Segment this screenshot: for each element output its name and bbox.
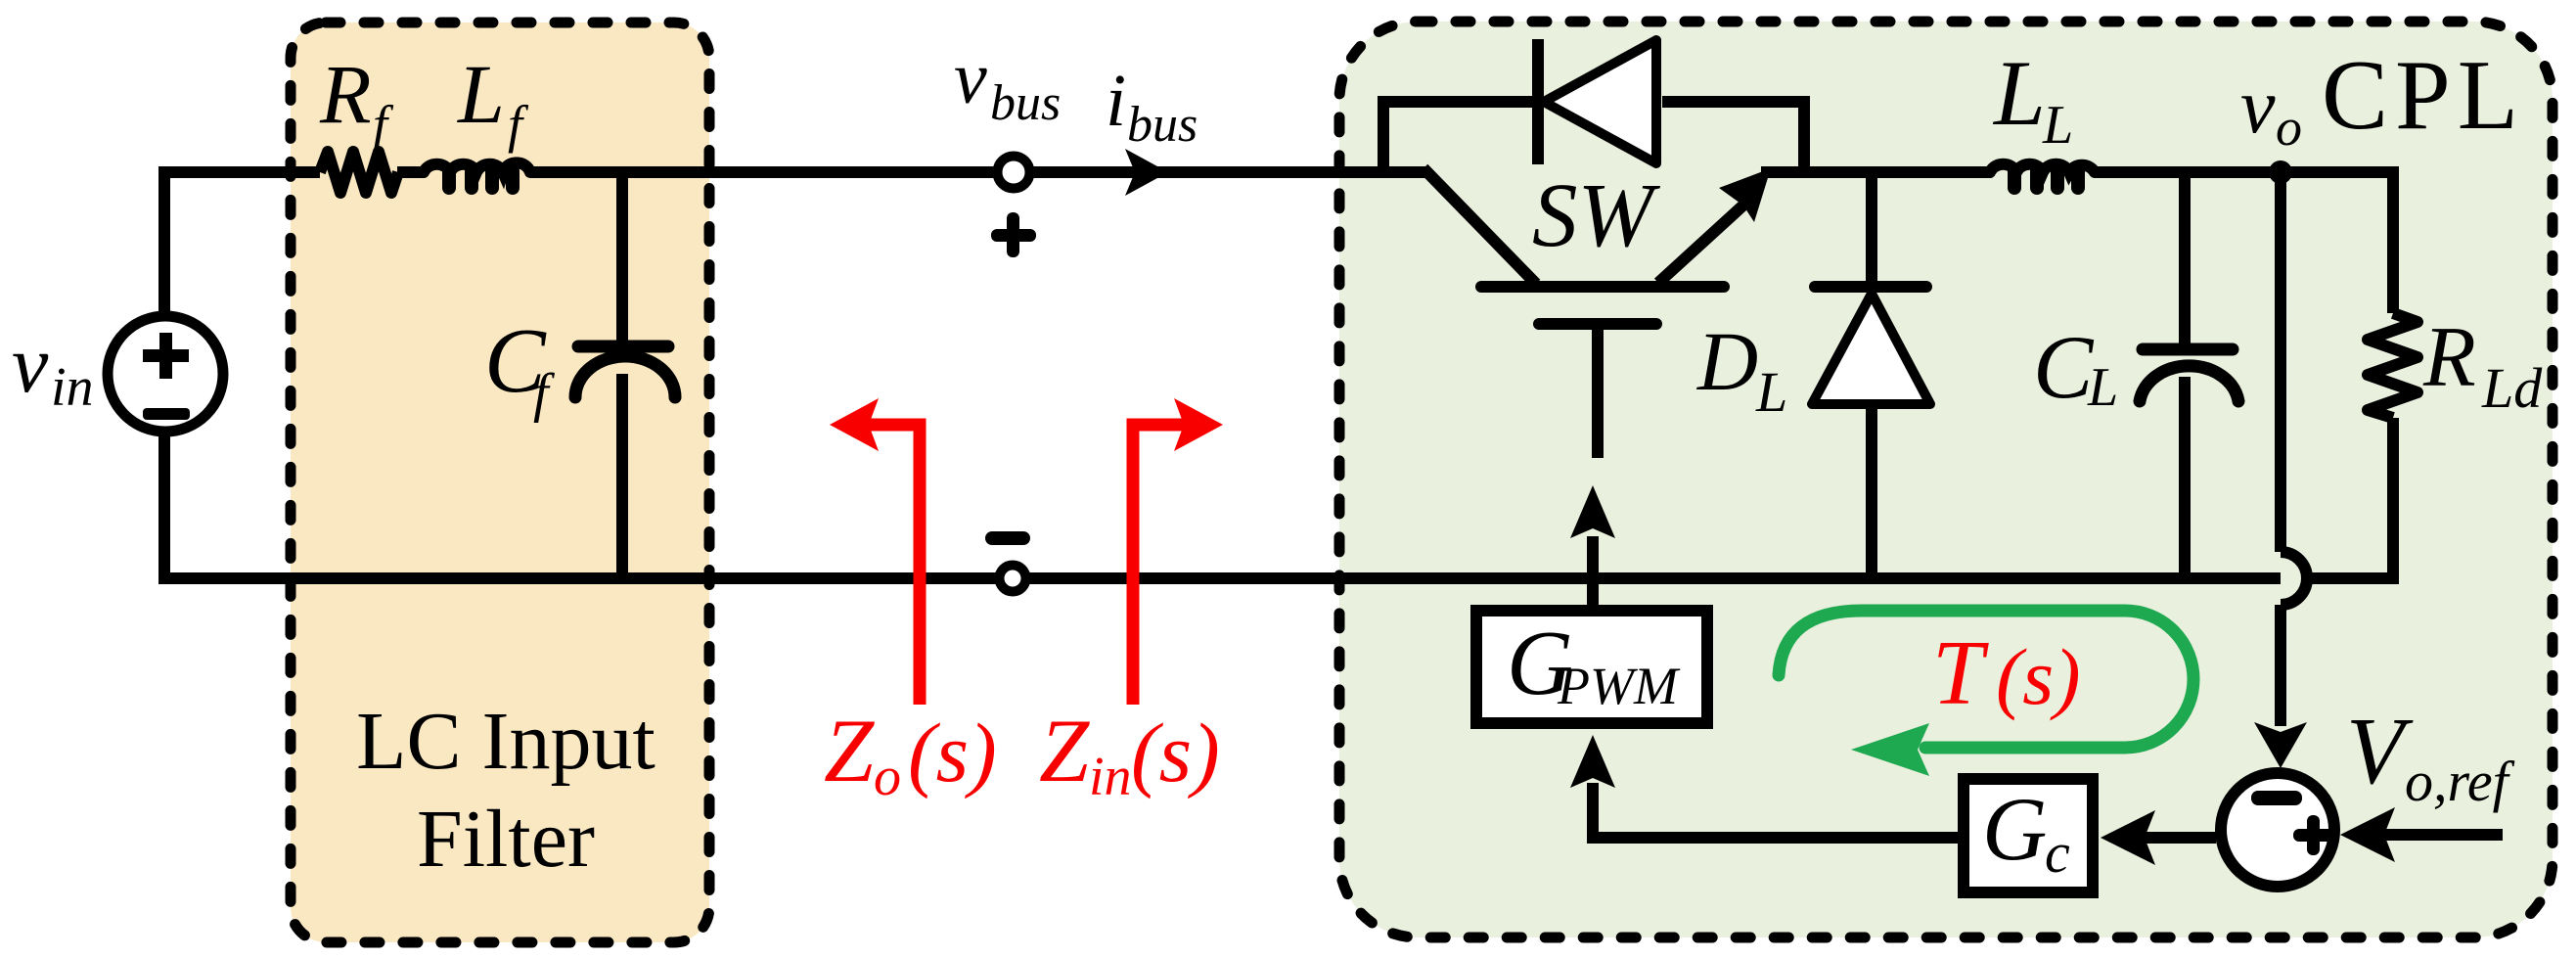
diode DL cathode bar — [1815, 281, 1926, 293]
transistor SW collector bar — [1481, 281, 1724, 293]
svg-text:in: in — [51, 357, 94, 418]
antiparallel diode cathode bar — [1532, 39, 1544, 164]
svg-text:L: L — [456, 47, 505, 141]
loop gain arrow T(s) — [1779, 611, 2193, 776]
plus polarity mark at vbus — [991, 212, 1036, 257]
svg-text:(s): (s) — [1131, 706, 1220, 799]
svg-text:L: L — [1755, 360, 1787, 424]
svg-text:L: L — [2087, 357, 2118, 418]
transistor SW gate bar — [1539, 318, 1656, 330]
wire Gc to GPWM with arrow — [1570, 735, 1958, 838]
wire Rf to Lf — [397, 166, 424, 178]
ibus current arrow — [1125, 149, 1168, 196]
inductor Lf — [424, 162, 530, 195]
antiparallel diode body — [1544, 40, 1656, 163]
reference input Voref arrow — [2340, 807, 2503, 862]
capacitor Cf — [575, 172, 675, 584]
svg-text:Filter: Filter — [417, 794, 595, 885]
feedback arrow into summing junction — [2254, 605, 2307, 768]
label Cf — [484, 310, 556, 424]
label Rf — [319, 47, 394, 154]
wire bottom return bus — [164, 436, 2281, 578]
feedback wire from vo down to hop — [2275, 172, 2286, 552]
svg-text:LC Input: LC Input — [356, 696, 655, 787]
node minus terminal on bottom bus — [1000, 566, 1026, 592]
voltage source Vin — [108, 316, 223, 432]
svg-text:L: L — [1992, 41, 2046, 145]
label T(s) — [1932, 622, 2081, 724]
capacitor CL — [2140, 172, 2238, 584]
label Zo(s) — [824, 701, 997, 807]
minus polarity mark above bottom node — [985, 531, 1030, 545]
arrow GPWM to gate — [1570, 485, 1615, 605]
svg-text:o: o — [874, 747, 901, 807]
node vbus open terminal — [998, 157, 1030, 189]
svg-text:Z: Z — [824, 701, 875, 800]
svg-text:c: c — [2045, 821, 2070, 885]
arrow summing junction to Gc — [2101, 810, 2216, 865]
wire hop bridge over bottom bus — [2281, 552, 2307, 605]
summing junction — [2221, 773, 2334, 887]
svg-text:R: R — [2422, 310, 2476, 405]
block Gc — [1964, 779, 2093, 892]
CPL converter box — [1339, 22, 2553, 937]
node vo junction dot — [2269, 160, 2292, 184]
label vbus — [954, 37, 1061, 131]
svg-text:PWM: PWM — [1557, 657, 1681, 715]
wire SW emitter to inductor LL — [1761, 166, 1990, 178]
resistor RLd bottom lead — [2387, 418, 2399, 584]
svg-text:o,ref: o,ref — [2405, 750, 2515, 813]
wire antiparallel diode left leg — [1383, 102, 1532, 172]
label CPL — [2322, 40, 2525, 151]
svg-text:CPL: CPL — [2322, 40, 2525, 151]
svg-text:Ld: Ld — [2481, 356, 2543, 420]
label Voref — [2346, 699, 2515, 813]
label Lf — [456, 47, 529, 154]
svg-text:C: C — [2033, 317, 2095, 417]
label DL — [1696, 314, 1787, 424]
label Zin(s) — [1039, 701, 1220, 807]
transistor SW collector lead — [1424, 168, 1536, 284]
svg-text:v: v — [2240, 64, 2276, 150]
diode DL body — [1812, 294, 1930, 404]
resistor Rf — [320, 152, 398, 193]
resistor RLd top lead — [2387, 172, 2399, 313]
wire antiparallel diode right leg — [1662, 102, 1804, 172]
impedance probe arrow Zin — [1133, 398, 1223, 705]
label ibus — [1106, 60, 1198, 153]
label RLd — [2422, 310, 2543, 420]
resistor RLd — [2368, 313, 2418, 418]
transistor SW gate lead — [1592, 330, 1604, 458]
diode DL anode lead — [1866, 404, 1877, 584]
svg-text:L: L — [2042, 95, 2073, 156]
inductor LL — [1990, 164, 2095, 195]
label LL — [1992, 41, 2073, 156]
transistor SW emitter arrow — [1658, 168, 1771, 283]
svg-text:V: V — [2346, 699, 2414, 803]
svg-text:i: i — [1106, 60, 1126, 142]
diode DL cathode lead — [1866, 172, 1877, 284]
LC input filter box — [291, 23, 709, 942]
svg-text:(s): (s) — [1996, 632, 2081, 721]
svg-text:in: in — [1089, 747, 1132, 807]
wire Lf to switch SW (top bus) — [530, 166, 1428, 178]
wire LL to load corner — [2095, 166, 2399, 178]
svg-text:v: v — [954, 37, 987, 119]
label CL — [2033, 317, 2118, 418]
svg-text:o: o — [2276, 98, 2302, 157]
label LC Input Filter — [356, 696, 655, 885]
svg-text:G: G — [1982, 779, 2047, 879]
svg-text:bus: bus — [1127, 97, 1198, 153]
label vin — [12, 319, 94, 418]
wire bottom bus right of hop — [2306, 572, 2399, 584]
svg-text:bus: bus — [990, 75, 1061, 131]
impedance probe arrow Zo — [830, 398, 920, 705]
svg-text:(s): (s) — [908, 706, 997, 799]
wire vin to resistor Rf — [164, 172, 320, 311]
label vo — [2240, 64, 2302, 157]
svg-text:D: D — [1696, 314, 1758, 408]
svg-text:Z: Z — [1039, 701, 1090, 800]
svg-text:SW: SW — [1532, 165, 1661, 266]
svg-text:v: v — [12, 319, 49, 410]
svg-text:T: T — [1932, 622, 1989, 724]
label SW — [1532, 165, 1661, 266]
block GPWM — [1476, 611, 1707, 723]
svg-text:R: R — [319, 47, 372, 141]
